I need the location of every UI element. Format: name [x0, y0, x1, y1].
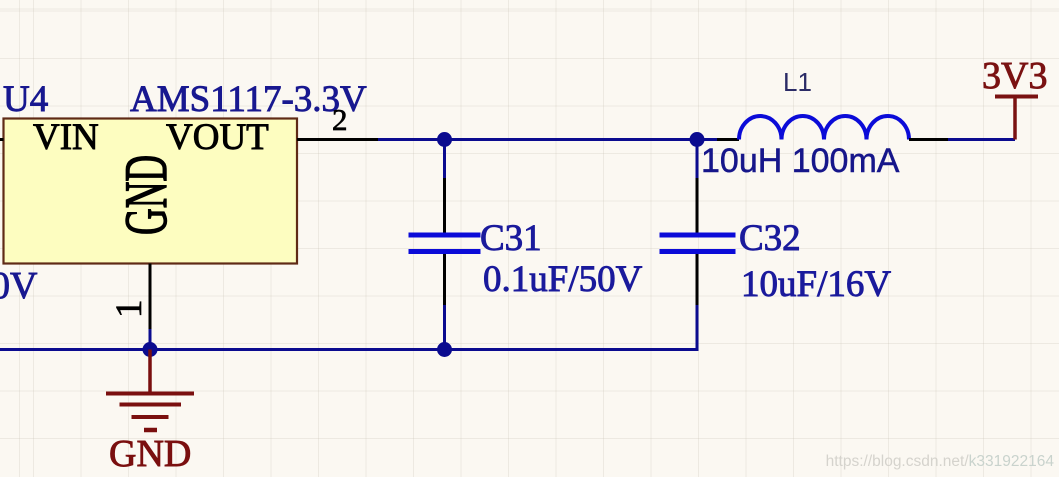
pin number 1 (rotated) — [109, 300, 150, 319]
pin VIN stub — [0, 138, 4, 141]
capacitor C31 bottom pin — [443, 254, 446, 305]
ground symbol — [106, 350, 194, 431]
net label 3V3 — [982, 55, 1047, 97]
svg-text:VOUT: VOUT — [166, 117, 269, 158]
svg-text:C32: C32 — [739, 218, 801, 259]
svg-text:2: 2 — [332, 102, 348, 137]
capacitor C32 bottom pin — [696, 254, 699, 305]
net label 0V — [0, 265, 38, 307]
junction C31 bottom — [437, 342, 452, 357]
designator U4 — [3, 79, 48, 120]
capacitor C32 top pin — [696, 178, 699, 233]
capacitor C31 top pin — [443, 178, 446, 233]
svg-text:https://blog.csdn.net/k3319221: https://blog.csdn.net/k331922164 — [826, 453, 1055, 470]
pin name VIN — [33, 117, 99, 158]
svg-text:10uF/16V: 10uF/16V — [741, 264, 891, 305]
wire VOUT to node A — [378, 138, 445, 141]
designator L1 — [783, 67, 812, 97]
svg-text:1: 1 — [109, 300, 150, 319]
junction node B — [690, 132, 705, 147]
ground rail wire — [0, 348, 697, 351]
inductor L1 left pin — [717, 138, 739, 141]
svg-text:L1: L1 — [783, 67, 812, 97]
pin 2 VOUT lead — [297, 138, 378, 141]
pin 1 GND lead — [149, 264, 152, 330]
value 0.1uF/50V — [483, 259, 643, 300]
designator C32 — [739, 218, 801, 259]
regulator U4 body — [4, 119, 298, 264]
svg-text:3V3: 3V3 — [982, 55, 1047, 97]
svg-text:GND: GND — [109, 433, 191, 475]
capacitor C31 plates — [409, 235, 481, 252]
pin name VOUT — [166, 117, 269, 158]
wire pin1 to rail — [149, 329, 152, 350]
power port 3V3 symbol — [995, 97, 1038, 140]
wire node A to node B — [445, 138, 698, 141]
pin name GND (rotated) — [113, 155, 179, 235]
wire node B to inductor — [697, 138, 717, 141]
wire C31 bottom to rail — [443, 305, 446, 350]
junction GND rail — [143, 342, 158, 357]
wire node A to C31 top — [443, 140, 446, 179]
watermark — [826, 453, 1055, 470]
value AMS1117-3.3V — [130, 79, 367, 120]
capacitor C32 plates — [660, 235, 736, 252]
wire node B to C32 top — [696, 140, 699, 179]
svg-text:GND: GND — [113, 155, 179, 235]
svg-text:C31: C31 — [480, 218, 542, 259]
svg-text:VIN: VIN — [33, 117, 99, 158]
inductor L1 right pin — [909, 138, 948, 141]
inductor L1 coil — [739, 116, 909, 140]
value 10uF/16V — [741, 264, 891, 305]
designator C31 — [480, 218, 542, 259]
wire inductor to power port — [948, 138, 1015, 141]
svg-text:0.1uF/50V: 0.1uF/50V — [483, 259, 643, 300]
svg-text:10uH 100mA: 10uH 100mA — [701, 142, 900, 180]
svg-text:0V: 0V — [0, 265, 38, 307]
pin number 2 — [332, 102, 348, 137]
wire C32 bottom to rail corner — [696, 305, 699, 351]
value 10uH 100mA — [701, 142, 900, 180]
net label GND — [109, 433, 191, 475]
junction node A — [437, 132, 452, 147]
svg-text:U4: U4 — [3, 79, 48, 120]
